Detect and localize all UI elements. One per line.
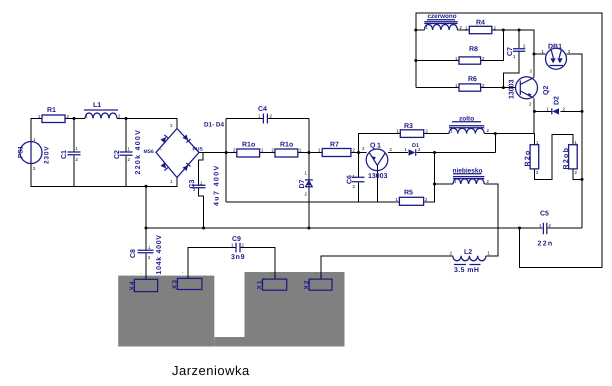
svg-text:X3: X3 xyxy=(172,279,179,289)
svg-text:C1: C1 xyxy=(61,150,68,159)
svg-text:13003: 13003 xyxy=(509,79,516,99)
svg-text:L1: L1 xyxy=(93,102,101,109)
svg-text:C2: C2 xyxy=(114,150,121,159)
svg-text:PS1: PS1 xyxy=(18,145,25,158)
svg-text:R2o: R2o xyxy=(525,149,532,166)
svg-text:3n9: 3n9 xyxy=(231,254,245,261)
svg-text:R1o: R1o xyxy=(280,142,293,149)
svg-text:230V: 230V xyxy=(44,146,51,164)
svg-text:czerwono: czerwono xyxy=(428,13,457,20)
svg-text:MS6: MS6 xyxy=(144,149,155,155)
svg-text:L2: L2 xyxy=(464,249,472,256)
svg-text:R8: R8 xyxy=(469,46,478,53)
svg-text:R4: R4 xyxy=(476,20,485,27)
svg-text:R7: R7 xyxy=(330,142,339,149)
svg-text:220k 400V: 220k 400V xyxy=(134,129,142,175)
svg-text:C8: C8 xyxy=(130,249,137,258)
svg-text:R6: R6 xyxy=(468,76,477,83)
svg-text:4u7 400V: 4u7 400V xyxy=(214,164,221,206)
svg-text:R1: R1 xyxy=(47,107,56,114)
svg-text:X2: X2 xyxy=(304,280,311,290)
svg-text:C5: C5 xyxy=(540,211,549,218)
svg-text:22n: 22n xyxy=(538,241,554,248)
svg-text:R5: R5 xyxy=(404,190,413,197)
svg-text:DB1: DB1 xyxy=(548,44,562,51)
svg-text:C4: C4 xyxy=(258,106,267,113)
svg-text:D2: D2 xyxy=(554,96,561,105)
svg-text:niebiesko: niebiesko xyxy=(453,168,483,175)
svg-text:+: + xyxy=(194,147,197,153)
svg-text:Jarzeniowka: Jarzeniowka xyxy=(172,363,250,378)
svg-text:zolto: zolto xyxy=(459,116,474,123)
svg-text:Q1: Q1 xyxy=(370,143,382,150)
svg-text:13003: 13003 xyxy=(368,173,388,180)
svg-text:D7: D7 xyxy=(299,179,306,188)
svg-text:X4: X4 xyxy=(129,281,136,291)
svg-text:D1- D4: D1- D4 xyxy=(204,122,224,129)
svg-text:R2ob: R2ob xyxy=(562,147,570,170)
svg-text:Q2: Q2 xyxy=(543,86,550,95)
svg-text:R3: R3 xyxy=(404,123,413,130)
svg-text:3.5 mH: 3.5 mH xyxy=(454,267,479,274)
svg-text:R1o: R1o xyxy=(242,142,255,149)
svg-text:X1: X1 xyxy=(257,280,264,290)
svg-text:104k 400V: 104k 400V xyxy=(155,234,163,274)
